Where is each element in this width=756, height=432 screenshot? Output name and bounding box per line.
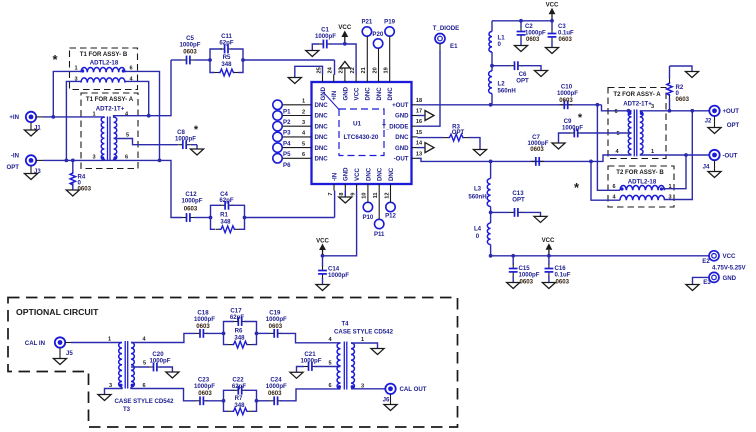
wire T1-A pin1 stub [103, 116, 105, 119]
transformer T2 (ASSY-A) dashed box [608, 88, 666, 159]
wire C12 to node B [195, 216, 213, 220]
ground at U1 pin8 [339, 191, 352, 204]
svg-text:DNC: DNC [377, 167, 384, 181]
wire T3 pin6 to C23 [131, 387, 196, 401]
svg-text:1: 1 [302, 99, 305, 105]
svg-text:1000pF: 1000pF [149, 358, 170, 365]
connector J4 -OUT [703, 150, 738, 171]
power VCC top-right [546, 2, 559, 21]
wire +OUT rail [418, 103, 632, 113]
T1-B bottom winding pins 3-4 [74, 76, 133, 82]
wire T2-A pin4 to -OUT rail [591, 155, 632, 161]
arrow at U1 pin17 [418, 111, 435, 121]
svg-text:J4: J4 [703, 164, 710, 171]
power VCC at U1 pin22 [338, 24, 356, 75]
power VCC at C14 [316, 238, 329, 256]
svg-text:DNC: DNC [365, 167, 372, 181]
svg-text:T2 FOR ASSY- A: T2 FOR ASSY- A [613, 91, 661, 98]
capacitor C21 1000pF with ground [297, 351, 341, 372]
svg-text:OPT: OPT [6, 164, 19, 171]
svg-text:1000pF: 1000pF [525, 31, 546, 37]
svg-text:21: 21 [361, 67, 367, 73]
transformer T4 right winding [351, 337, 364, 390]
inductor L3 560nH [468, 161, 490, 212]
wire T1-B pin1 to +IN rail [53, 71, 81, 117]
inductor L4 0 [474, 212, 491, 255]
svg-text:1: 1 [108, 337, 111, 343]
svg-text:0603: 0603 [530, 146, 544, 153]
ground at C8 [190, 149, 203, 155]
wire R3 to ground [468, 138, 480, 150]
svg-text:P19: P19 [384, 19, 395, 26]
svg-text:4.75V-5.25V: 4.75V-5.25V [712, 265, 746, 272]
wire T1-B pin6 to -IN rail [125, 71, 160, 160]
svg-text:-OUT: -OUT [723, 152, 738, 159]
svg-text:P2: P2 [283, 119, 291, 126]
capacitor C8 1000pF [175, 129, 196, 149]
capacitor C3 0.1uF 0603 [548, 21, 574, 48]
capacitor C2 1000pF 0603 [517, 21, 546, 46]
svg-text:-IN: -IN [331, 173, 338, 181]
test point P12 [385, 191, 396, 220]
svg-text:5: 5 [302, 141, 305, 147]
svg-text:-OUT: -OUT [394, 156, 409, 163]
asterisk near T2-B [574, 180, 580, 195]
capacitor C16 0.1uF 0603 [545, 256, 571, 286]
svg-text:62pF: 62pF [219, 40, 234, 47]
svg-text:+OUT: +OUT [392, 102, 409, 109]
asterisk near C8 [194, 124, 199, 136]
svg-text:62pF: 62pF [230, 314, 245, 321]
svg-text:14: 14 [416, 141, 423, 147]
svg-text:17: 17 [416, 109, 422, 115]
svg-text:P11: P11 [374, 231, 385, 238]
wire +OUT to T2-B pin6 [597, 105, 620, 191]
wire T3 pin4 to C18 [131, 333, 196, 342]
svg-text:20: 20 [372, 67, 378, 73]
svg-text:DNC: DNC [365, 87, 372, 101]
svg-text:6: 6 [302, 152, 305, 158]
ground at C2 [514, 46, 527, 52]
svg-text:OPT: OPT [516, 78, 529, 85]
U1 reference text [344, 121, 379, 142]
wire R5C11 to U1 pin24 [241, 58, 334, 75]
wire E3 to ground [693, 277, 710, 284]
test point P20 [372, 31, 383, 75]
svg-text:C3: C3 [558, 24, 566, 30]
capacitor C7 1000pF 0603 [527, 134, 548, 166]
T3 core [125, 341, 128, 389]
svg-text:P6: P6 [283, 162, 291, 169]
T1-A core [108, 117, 111, 161]
connector J1 +IN [9, 112, 43, 132]
power VCC at C16 [542, 237, 555, 256]
svg-text:6: 6 [612, 184, 615, 190]
svg-text:+IN: +IN [331, 91, 338, 101]
svg-text:T3: T3 [123, 406, 131, 413]
capacitor C4 62pF [211, 191, 245, 218]
capacitor C18 1000pF 0603 [194, 310, 215, 338]
T3 label CASE STYLE CD542 [115, 398, 175, 413]
svg-text:-IN: -IN [11, 153, 19, 160]
svg-text:13: 13 [416, 151, 422, 157]
connector J6 CAL OUT [383, 384, 427, 404]
wire J4 node to T2-B pin1 [662, 155, 687, 189]
svg-text:*: * [194, 124, 199, 136]
resistor R4 0 0603 [70, 160, 92, 192]
svg-text:348: 348 [234, 402, 245, 409]
op-amp U1 LTC6430-20 body [312, 82, 412, 184]
ground below J3 [24, 166, 37, 180]
ground below J1 [24, 122, 37, 136]
wire T1-A pin5 tap to C8 [114, 139, 178, 145]
capacitor C13 OPT [491, 190, 541, 217]
svg-text:5: 5 [126, 133, 129, 139]
wire R7C22 to C24 [255, 399, 270, 403]
ground at C3 [545, 48, 558, 54]
svg-text:VCC: VCC [723, 253, 736, 260]
ground at U1 pin25 [288, 78, 301, 84]
svg-text:R1: R1 [220, 211, 228, 218]
svg-text:GND: GND [342, 86, 349, 100]
svg-text:5: 5 [328, 361, 331, 367]
svg-text:0603: 0603 [78, 186, 92, 193]
wire E1 to U1 pin16 [418, 44, 441, 127]
capacitor C10 1000pF 0603 [557, 84, 578, 110]
ground below J2 [708, 116, 721, 133]
svg-text:CAL IN: CAL IN [25, 340, 45, 347]
capacitor C6 OPT [492, 61, 541, 84]
resistor R7 348 [224, 395, 257, 415]
svg-text:T_DIODE: T_DIODE [433, 25, 459, 32]
svg-text:1: 1 [651, 149, 654, 155]
svg-text:9: 9 [350, 193, 356, 196]
svg-text:GND: GND [320, 86, 327, 100]
ground at C1 [306, 51, 319, 57]
asterisk near T1-B [52, 52, 58, 67]
wire -IN rail [43, 159, 104, 163]
U1 right pins 18-13 stubs and labels [382, 98, 423, 163]
svg-text:OPT: OPT [452, 129, 465, 136]
svg-text:VCC: VCC [354, 87, 361, 100]
ground at C6 [534, 71, 547, 77]
capacitor C17 62pF [224, 308, 257, 334]
wire J2 node to T2-B pin3 [665, 111, 693, 200]
svg-text:ADTL2-18: ADTL2-18 [628, 179, 657, 186]
wire C7 node to T2-B pin4 [591, 161, 620, 200]
turret E1 T_DIODE [433, 25, 459, 50]
svg-text:6: 6 [129, 66, 132, 72]
U1 top pins 25-19 stubs and labels [316, 66, 394, 100]
test point P19 [384, 19, 395, 75]
svg-text:DNC: DNC [395, 134, 409, 141]
wire -OUT rail [418, 158, 593, 163]
T4 label CASE STYLE CD542 [334, 321, 394, 336]
ground at C9 [552, 143, 565, 149]
svg-text:GND: GND [395, 145, 409, 152]
svg-text:L2: L2 [498, 81, 506, 88]
svg-text:0603: 0603 [184, 205, 198, 212]
svg-text:0603: 0603 [559, 37, 573, 43]
svg-text:CASE STYLE CD542: CASE STYLE CD542 [334, 329, 394, 336]
svg-text:T4: T4 [341, 321, 349, 328]
svg-text:DNC: DNC [315, 102, 329, 109]
test point P11 [374, 191, 385, 239]
svg-text:T_DIODE: T_DIODE [382, 123, 408, 130]
svg-text:7: 7 [328, 193, 334, 196]
arrow at U1 pin14 [418, 143, 435, 153]
T1-A secondary winding [114, 112, 130, 161]
svg-text:R7: R7 [235, 395, 243, 402]
ground below J5 [53, 348, 66, 365]
svg-text:+IN: +IN [9, 114, 19, 121]
svg-text:3: 3 [92, 155, 95, 161]
ground below J6 [384, 394, 397, 410]
test point P21 [361, 19, 372, 75]
capacitor C22 62pF [224, 377, 257, 401]
svg-text:8: 8 [339, 193, 345, 196]
wire T3 pin3 to ground [105, 387, 123, 395]
transformer T4 left winding [328, 337, 341, 389]
svg-text:24: 24 [328, 66, 334, 73]
resistor R5 348 [210, 54, 243, 76]
svg-text:0603: 0603 [198, 390, 212, 397]
svg-text:R6: R6 [235, 327, 243, 334]
wire node IN2 (T1-A pin4 to C5) [114, 60, 171, 118]
svg-text:GND: GND [395, 113, 409, 120]
svg-text:0603: 0603 [556, 278, 570, 285]
svg-text:15: 15 [416, 130, 422, 136]
svg-text:1000pF: 1000pF [300, 358, 321, 365]
svg-text:GND: GND [343, 167, 350, 181]
capacitor C19 1000pF 0603 [266, 310, 287, 338]
optional circuit dashed boundary [8, 298, 458, 428]
capacitor C12 1000pF 0603 [181, 191, 202, 222]
wire T4 pin3 to J6 [351, 388, 385, 390]
svg-text:0603: 0603 [183, 48, 197, 55]
capacitor C14 1000pF [318, 256, 349, 285]
ground at C16 [542, 283, 555, 289]
ground at C15 [507, 283, 520, 289]
svg-text:VCC: VCC [338, 24, 351, 31]
svg-text:VCC: VCC [354, 168, 361, 181]
capacitor C5 1000pF 0603 [171, 35, 201, 64]
svg-text:R5: R5 [223, 54, 231, 61]
T2-A right winding [640, 104, 654, 155]
inductor L2 560nH [489, 71, 516, 105]
svg-text:P20: P20 [372, 31, 383, 38]
svg-text:J5: J5 [66, 350, 73, 357]
svg-text:6: 6 [328, 383, 331, 389]
wire R1C4 to U1 pin7 [243, 191, 335, 220]
svg-text:L4: L4 [474, 226, 482, 233]
T2-A left winding [614, 109, 631, 155]
svg-text:62pF: 62pF [219, 197, 234, 204]
svg-text:12: 12 [384, 193, 390, 199]
wire T4 pin1 to ground [351, 343, 378, 349]
svg-text:E2: E2 [702, 258, 710, 265]
wire U1 pin9 to VCC node [321, 191, 357, 258]
svg-text:0603: 0603 [269, 323, 283, 330]
svg-text:P3: P3 [283, 130, 291, 137]
capacitor C11 62pF [210, 33, 243, 60]
resistor R3 OPT [418, 123, 469, 141]
ground at R2 [685, 72, 698, 78]
wire T1-A pin3 stub [104, 159, 113, 161]
svg-text:T1 FOR ASSY- A: T1 FOR ASSY- A [86, 96, 134, 103]
svg-text:T2 FOR ASSY- B: T2 FOR ASSY- B [616, 169, 664, 176]
U1 left pins 1-6 stubs and DNC labels [283, 99, 329, 163]
svg-text:16: 16 [416, 119, 422, 125]
T2-B top winding [612, 184, 671, 191]
svg-text:5: 5 [143, 361, 146, 367]
wire T1-B pin4 to node IN2 [125, 81, 149, 115]
svg-text:OPT: OPT [727, 122, 740, 129]
svg-text:ADT2-1T+: ADT2-1T+ [623, 101, 652, 108]
svg-text:0603: 0603 [520, 278, 534, 285]
wire C24 to T4 pin6 [280, 389, 340, 401]
transformer T1 (ASSY-B) dashed box [70, 48, 138, 90]
capacitor C24 1000pF 0603 [266, 377, 287, 406]
svg-text:DNC: DNC [315, 113, 329, 120]
capacitor C20 1000pF [131, 351, 172, 372]
ground below R4 [66, 190, 79, 196]
svg-text:18: 18 [416, 98, 422, 104]
svg-text:OPTIONAL CIRCUIT: OPTIONAL CIRCUIT [16, 307, 99, 317]
wire T1-B pin3 to -IN rail [66, 81, 81, 160]
T1-B top winding pins 1-6 [74, 66, 132, 73]
svg-text:L3: L3 [474, 186, 482, 193]
svg-text:GND: GND [723, 275, 737, 282]
turret E2 VCC [702, 251, 746, 272]
wire T2-A pin3 to J2 node [640, 109, 709, 113]
svg-text:6: 6 [614, 109, 617, 115]
U1 bottom pins 7-12 stubs and labels [328, 167, 395, 199]
test point P10 [362, 191, 373, 222]
svg-text:P4: P4 [283, 140, 291, 147]
asterisk near C9 [578, 112, 583, 124]
wire R2 to ground [670, 66, 693, 72]
capacitor C23 1000pF 0603 [194, 377, 215, 406]
T1-A primary winding [92, 112, 104, 161]
ground at E3 [686, 285, 699, 291]
wire C19 to T4 pin4 [280, 333, 340, 342]
OPTIONAL CIRCUIT title [16, 307, 99, 317]
svg-text:11: 11 [373, 193, 379, 199]
wire J5 to T3 pin1 [71, 342, 122, 344]
svg-text:DNC: DNC [387, 87, 394, 101]
wire U1 pin25 to ground [295, 66, 323, 77]
arrow at U1 pin23 [340, 62, 350, 75]
transformer T2 (ASSY-B) dashed box [608, 166, 674, 207]
svg-text:DNC: DNC [315, 123, 329, 130]
svg-text:P1: P1 [283, 108, 291, 115]
test points P1-P6 [273, 100, 291, 169]
svg-text:0.1uF: 0.1uF [558, 31, 574, 37]
ground at T4 pin1 [371, 349, 384, 355]
svg-text:348: 348 [221, 61, 232, 68]
wire C8 to ground [191, 145, 197, 149]
svg-text:0603: 0603 [676, 96, 690, 103]
svg-text:P5: P5 [283, 151, 291, 158]
transformer T3 secondary winding [131, 337, 147, 390]
svg-text:1: 1 [361, 337, 364, 343]
connector J3 -IN OPT [6, 153, 43, 176]
svg-text:0603: 0603 [526, 37, 540, 43]
transformer T3 primary winding [108, 337, 123, 390]
wire -IN2 node (T1-A pin6 to C12) [114, 159, 182, 218]
wire C18 to node C [206, 332, 225, 336]
ground at C20 [166, 372, 179, 378]
svg-text:1: 1 [92, 112, 95, 118]
svg-text:VCC: VCC [546, 2, 559, 9]
svg-text:3: 3 [302, 120, 305, 126]
svg-text:62pF: 62pF [232, 383, 247, 390]
svg-text:1000pF: 1000pF [175, 136, 196, 143]
svg-text:1000pF: 1000pF [315, 33, 336, 40]
wire C23 to node D [206, 399, 225, 403]
U1 exposed pad dashed box [324, 93, 385, 156]
wire +IN rail [43, 115, 104, 119]
svg-text:0603: 0603 [268, 390, 282, 397]
svg-text:T1 FOR ASSY- B: T1 FOR ASSY- B [80, 51, 128, 58]
ground at C14 [316, 285, 329, 291]
svg-text:2: 2 [302, 109, 305, 115]
svg-text:VCC: VCC [316, 238, 329, 245]
svg-text:VCC: VCC [542, 237, 555, 244]
wire L3-L4 node [489, 211, 493, 215]
svg-text:OPT: OPT [512, 197, 525, 204]
wire L1 to L2 [490, 52, 494, 71]
svg-text:C2: C2 [525, 24, 533, 30]
svg-text:+OUT: +OUT [723, 108, 740, 115]
svg-text:E1: E1 [450, 43, 458, 50]
svg-text:560nH: 560nH [498, 88, 516, 95]
svg-text:348: 348 [234, 334, 245, 341]
wire VCC rail top [492, 19, 554, 23]
connector J5 CAL IN [25, 337, 74, 357]
wire R6C17 to C19 [255, 332, 270, 336]
inductor L1 0 [489, 21, 505, 52]
svg-text:1000pF: 1000pF [181, 198, 202, 205]
capacitor C1 1000pF [312, 27, 345, 51]
wire T2-A pin1 to J4 node [640, 153, 709, 157]
T2-B bottom winding [612, 195, 671, 201]
transformer T1 (ASSY-A) dashed box [81, 93, 138, 169]
svg-text:1000pF: 1000pF [328, 272, 349, 279]
resistor R2 0 0603 [667, 66, 690, 111]
svg-text:ADT2-1T+: ADT2-1T+ [96, 106, 125, 113]
wire VCC input rail [489, 254, 709, 258]
svg-text:DNC: DNC [315, 156, 329, 163]
svg-text:P10: P10 [362, 214, 373, 221]
connector J2 +OUT [705, 106, 740, 129]
svg-text:25: 25 [316, 67, 322, 73]
svg-text:DNC: DNC [315, 145, 329, 152]
ground at C21 [290, 372, 303, 378]
svg-text:DNC: DNC [376, 87, 383, 101]
resistor R6 348 [224, 327, 257, 348]
svg-text:560nH: 560nH [468, 194, 486, 201]
svg-text:E3: E3 [703, 279, 711, 286]
svg-text:LTC6430-20: LTC6430-20 [344, 134, 379, 141]
svg-text:DNC: DNC [315, 134, 329, 141]
svg-text:P12: P12 [385, 213, 396, 220]
svg-text:U1: U1 [353, 121, 362, 128]
svg-text:5: 5 [616, 131, 619, 137]
svg-text:19: 19 [384, 67, 390, 73]
svg-text:10: 10 [362, 193, 368, 199]
